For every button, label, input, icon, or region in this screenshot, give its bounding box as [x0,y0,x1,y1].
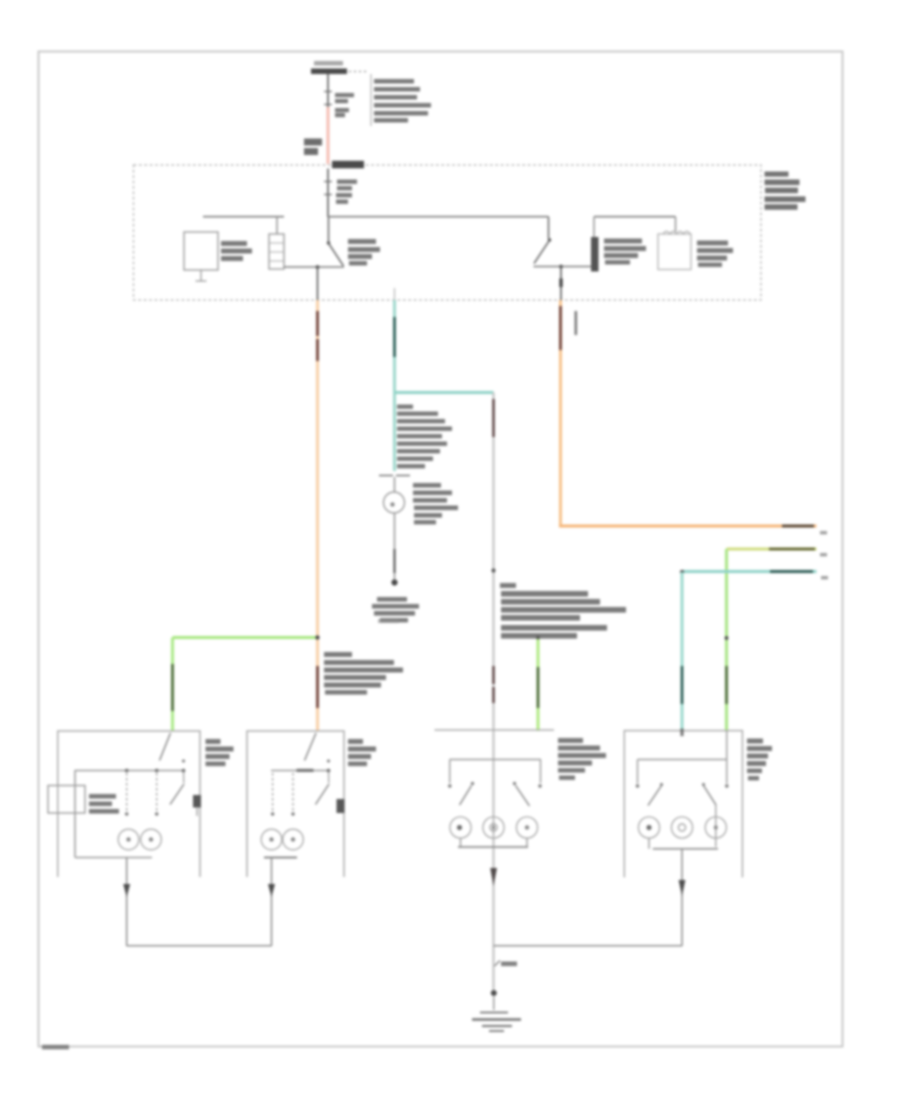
switch S1 inside SJB right [548,217,550,239]
wire: relay output horizontal [284,266,344,268]
switch arm left in box 4 [660,783,663,786]
component: relay coil K1 [269,234,284,269]
relay K1 fixed contact from bus [328,217,330,242]
switch arm 1 in box 1 [160,733,171,761]
wire from battery feed down [327,74,329,108]
node: output junction [559,265,563,269]
wire: OG orange vertical from relay output [316,300,319,731]
fuse F2 tick marks [324,181,332,183]
label: power distribution reference text [374,79,431,123]
lamp assembly 1 outline [58,731,200,877]
lamp L9 bulb [671,817,692,838]
label: text right of box B [697,241,733,268]
node: junction on gray trunk [491,568,495,572]
connector arcs above box [663,231,690,234]
node: teal corner junction [680,570,684,574]
wire: box 1 bottom rail [75,857,152,859]
dashed bulb feeds box 2 [272,773,274,811]
wire: OG/YE orange right vertical [559,300,562,527]
smart junction box SJB dashed outline [134,165,762,300]
component: module box inside SJB [184,232,218,270]
label: box 2 text [348,739,376,766]
lamp L6 bulb [483,817,504,838]
node: relay output junction [316,265,320,269]
label: connector C270 [304,139,322,156]
wire: box 2 bottom rail [264,857,297,859]
label: box 4 text [747,739,772,781]
label: box 3 text [558,738,606,780]
wire: stub from bus to relay coil [276,217,278,234]
fuse F1 tick marks [324,91,332,93]
label: big note text block [500,583,626,639]
wire: gray vertical trunk [492,393,494,991]
wire: box 2 feed rail [271,770,329,772]
lamp L4 bulb [283,829,304,850]
wire: teal 2 to right edge [682,570,817,573]
relay K1 switch arm [329,244,344,266]
node: ground point dot [391,579,397,585]
switch arm right in box 4 [702,783,705,786]
wire: RD (pink) battery feed [327,107,330,164]
label: fuse 2 value text [336,180,357,204]
switch arm 1 in box 2 [305,733,317,761]
wire: switch pivot horizontal [534,266,595,268]
wire: box 4 exit down [681,849,683,946]
label: lamp text [413,483,458,524]
switch arm left in box 3 [471,782,474,785]
wire: yellow-green vertical down [725,549,728,731]
wire: relay 2 top link [594,216,676,218]
wire: box 1 feed rail [75,770,184,772]
lamp L2 bulb [141,829,162,850]
wire: ground bus right pair [494,945,683,947]
wire: center bus inside SJB [328,216,549,218]
label: text right of dark bar [604,239,646,265]
wire: box 4 bulb bottoms [648,838,650,849]
wire below lamp to ground [394,513,396,581]
label: relay text [348,239,380,266]
wire: box 1 exit down [126,858,128,947]
wire: teal horizontal branch [395,391,494,394]
lamp L1 bulb [118,829,139,850]
dashed bulb feeds box 1 [126,773,128,811]
wire: green drop inside box 4 [726,731,728,760]
component: box B inside SJB [658,234,691,270]
wire: YE/GN yellow-green to right edge [727,548,817,551]
wire: box 1 inner left drop [74,771,76,858]
lamp assembly 3 top rail [435,729,555,731]
label: teal wire text block [397,405,452,469]
connector dash under teal wire end [379,475,393,477]
lamp L3 bulb [261,829,282,850]
ground stub under module box [200,270,202,281]
label: SJB text outside right [765,172,806,210]
wire inside SJB from top edge [327,169,329,218]
wire: relay output down to box edge [317,267,319,300]
label: box 1 text [206,739,234,766]
arrow on trunk below box 3 [490,868,497,886]
wire: teal 2 vertical down [681,572,684,731]
lamp assembly 2 outline [247,731,344,877]
lamp assembly 4 outline [624,731,742,878]
wire: LG green horizontal left [173,636,318,639]
wire: teal from SJB down [394,288,396,300]
wire: box 4 inner rail [638,759,727,761]
connector block on box 1 right edge [193,795,201,808]
wire: left bus inside SJB [203,216,284,218]
switch arm 2 in box 1 [182,760,185,763]
label: page number mark bottom left [42,1045,69,1050]
label: connector box text [89,794,119,814]
wire: green 3 vertical middle [537,638,540,732]
wire: box 3 inner rail [450,759,542,761]
wire: box 3 bulb bottoms [460,838,462,847]
wire: output down to box edge [560,267,562,301]
node: green-orange junction [315,635,319,639]
label: connector C2280A bold on box edge [332,161,364,169]
wire: green vertical left [171,638,174,732]
label: fuse value text [335,93,354,117]
teal entry tick box 4 [680,729,683,737]
switch arm 2 in box 2 [327,760,330,763]
component: courtesy lamp bulb symbol [384,492,405,513]
label: small text above left junction [378,619,399,623]
connector block on box 2 right edge [337,799,345,813]
node: ground splice dot [491,990,497,996]
wire: box 2 exit down [271,858,273,947]
component: dark connector bar [591,237,599,272]
wire to lamp symbol [394,477,396,492]
lamp L8 bulb [638,817,659,838]
wire: ground bus left pair [127,945,272,947]
lamp L7 bulb [516,817,537,838]
switch arm right in box 3 [513,782,516,785]
label: orange junction text block [324,652,403,695]
wire dotted leader to reference bracket [349,71,369,73]
label: ground G text [372,597,419,622]
label: ground id text G302 [495,961,501,967]
lamp L5 bulb [450,817,471,838]
component: connector box on box 1 left [48,786,85,814]
node: reference bracket [370,74,372,126]
node: HOT AT ALL TIMES label [311,61,347,74]
lamp L10 bulb [705,817,726,838]
label: module box text [221,241,252,261]
ground symbol G302 [480,1012,508,1014]
